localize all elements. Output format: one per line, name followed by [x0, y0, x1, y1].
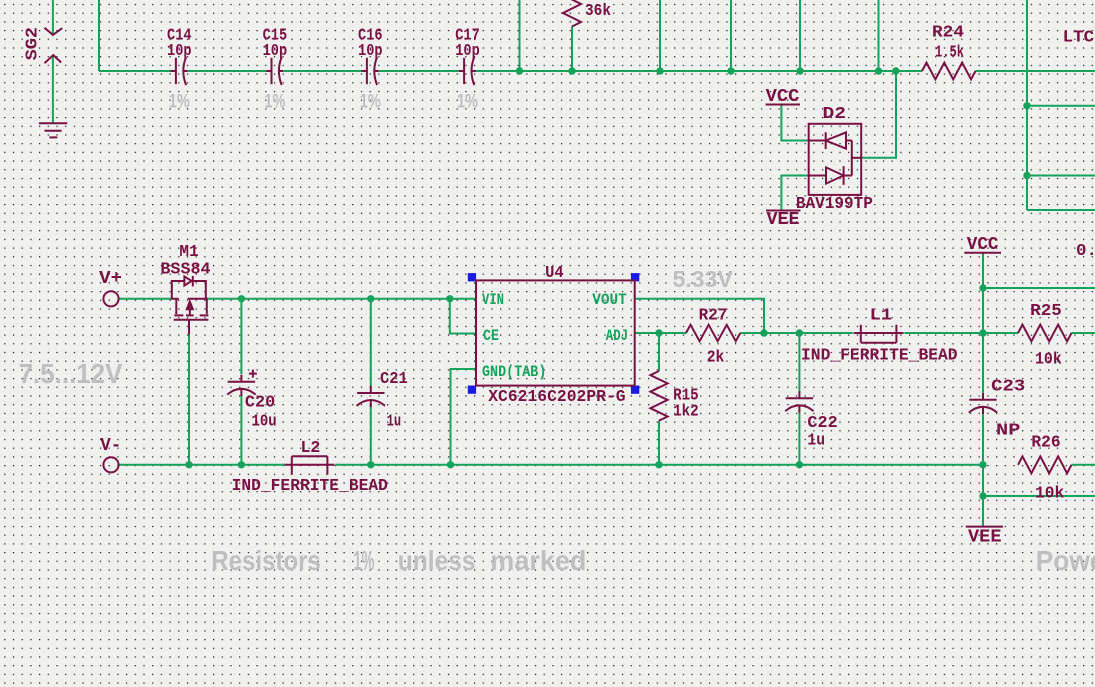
- svg-text:C20: C20: [245, 394, 275, 413]
- svg-text:36k: 36k: [585, 2, 611, 21]
- svg-text:V-: V-: [100, 436, 121, 456]
- svg-text:L1: L1: [870, 307, 892, 326]
- svg-text:NP: NP: [996, 421, 1020, 440]
- svg-text:R24: R24: [932, 23, 964, 42]
- svg-text:10p: 10p: [455, 42, 480, 61]
- svg-text:unless: unless: [398, 545, 476, 576]
- svg-text:2k: 2k: [707, 348, 725, 367]
- svg-text:1u: 1u: [807, 431, 825, 450]
- svg-text:R25: R25: [1030, 302, 1062, 321]
- svg-text:IND_FERRITE_BEAD: IND_FERRITE_BEAD: [801, 347, 958, 366]
- svg-text:5.33V: 5.33V: [673, 266, 734, 292]
- svg-text:1u: 1u: [387, 412, 402, 431]
- svg-text:D2: D2: [823, 105, 847, 124]
- svg-text:BAV199TP: BAV199TP: [796, 195, 873, 214]
- svg-text:IND_FERRITE_BEAD: IND_FERRITE_BEAD: [232, 477, 388, 496]
- svg-text:GND(TAB): GND(TAB): [482, 363, 546, 381]
- svg-text:VOUT: VOUT: [592, 291, 627, 309]
- svg-text:C21: C21: [380, 370, 408, 389]
- svg-text:R26: R26: [1031, 434, 1060, 453]
- svg-text:VIN: VIN: [482, 291, 504, 309]
- svg-text:10u: 10u: [252, 412, 277, 431]
- svg-text:ADJ: ADJ: [606, 327, 628, 345]
- svg-text:7.5...12V: 7.5...12V: [19, 358, 123, 389]
- svg-text:BSS84: BSS84: [160, 261, 210, 280]
- svg-text:VCC: VCC: [967, 235, 999, 255]
- svg-text:10k: 10k: [1035, 351, 1062, 370]
- svg-text:1%: 1%: [360, 91, 381, 112]
- svg-text:Power: Power: [1036, 545, 1095, 576]
- svg-text:1.5k: 1.5k: [935, 44, 964, 63]
- svg-text:10p: 10p: [167, 42, 192, 61]
- svg-text:10p: 10p: [358, 42, 383, 61]
- svg-text:0.22: 0.22: [1076, 242, 1095, 261]
- svg-text:CE: CE: [483, 327, 499, 345]
- svg-text:R27: R27: [699, 307, 728, 326]
- svg-text:C23: C23: [991, 378, 1025, 397]
- svg-text:marked: marked: [490, 545, 586, 576]
- svg-text:SG2: SG2: [24, 27, 43, 60]
- svg-text:M1: M1: [179, 243, 198, 262]
- svg-text:Resistors: Resistors: [211, 545, 321, 576]
- svg-text:VEE: VEE: [968, 527, 1002, 547]
- svg-text:10p: 10p: [263, 42, 288, 61]
- svg-text:1%: 1%: [457, 91, 478, 112]
- svg-text:1%: 1%: [353, 545, 374, 576]
- svg-text:1%: 1%: [169, 91, 190, 112]
- svg-text:10k: 10k: [1035, 485, 1064, 504]
- svg-text:1k2: 1k2: [673, 403, 699, 422]
- svg-text:V+: V+: [99, 269, 122, 289]
- svg-text:C22: C22: [807, 414, 837, 433]
- svg-text:VEE: VEE: [767, 210, 800, 230]
- svg-text:VCC: VCC: [766, 87, 800, 107]
- svg-text:XC6216C202PR-G: XC6216C202PR-G: [488, 388, 625, 407]
- svg-text:L2: L2: [300, 439, 320, 458]
- svg-text:U4: U4: [545, 264, 564, 283]
- svg-text:1%: 1%: [264, 91, 285, 112]
- svg-text:LTC6: LTC6: [1063, 29, 1095, 48]
